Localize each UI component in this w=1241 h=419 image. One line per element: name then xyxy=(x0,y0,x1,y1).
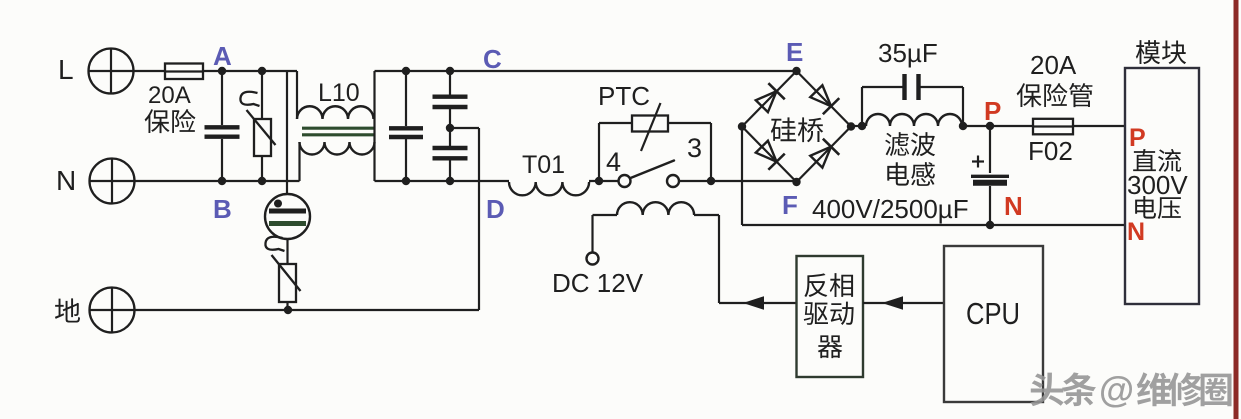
relay coil left lead xyxy=(593,214,618,216)
inverting driver block outline xyxy=(797,256,864,377)
PTC branch top wire left xyxy=(599,122,632,124)
label 滤波 (filter) xyxy=(885,132,935,156)
junction dot C2 top xyxy=(402,67,410,75)
wire inductor to node P xyxy=(963,125,990,127)
svg-text:20A: 20A xyxy=(148,82,191,109)
wire T01 to PTC branch xyxy=(589,180,619,182)
red page edge line xyxy=(1234,0,1239,419)
capacitor C3 lead top xyxy=(449,71,451,95)
relay switch contact 4 xyxy=(619,175,631,187)
Y-cap midpoint junction dot xyxy=(446,124,454,132)
wire node P to fuse F02 xyxy=(990,125,1033,127)
wire choke to capacitor C2 top xyxy=(375,70,407,72)
svg-text:@: @ xyxy=(1099,369,1134,410)
35uF branch top wire left xyxy=(862,86,904,88)
choke L10 bottom winding xyxy=(300,142,375,155)
PTC thermistor body xyxy=(632,116,668,132)
wire fuse F01 to node A xyxy=(203,70,222,72)
fuse F02 body xyxy=(1033,119,1073,135)
wire earth drop vertical xyxy=(478,128,480,310)
capacitor C2 lead bottom xyxy=(405,139,407,181)
svg-text:35µF: 35µF xyxy=(878,38,938,68)
earth row wire xyxy=(135,309,480,311)
svg-text:N: N xyxy=(1004,191,1023,221)
svg-text:A: A xyxy=(213,41,232,71)
wire Y-caps to inductor T01 xyxy=(450,180,509,182)
terminal earth (地) xyxy=(90,288,135,333)
junction dot PTC branch left xyxy=(595,177,603,185)
capacitor C2 plates xyxy=(389,126,423,130)
junction dot C4 bottom xyxy=(446,177,454,185)
capacitor 35uF plates xyxy=(902,74,906,100)
junction dot Y-caps top xyxy=(446,67,454,75)
relay switch blade xyxy=(631,161,675,179)
svg-text:P: P xyxy=(1129,124,1146,152)
terminal L (AC live input) xyxy=(89,49,134,94)
svg-text:P: P xyxy=(984,96,1001,126)
junction dot PTC branch right xyxy=(707,177,715,185)
PTC branch right vertical xyxy=(710,123,712,181)
svg-text:N: N xyxy=(56,165,76,196)
svg-text:4: 4 xyxy=(606,147,621,177)
arrowhead toward driver xyxy=(882,296,903,310)
wire to L10 top winding xyxy=(262,70,297,72)
label 地 (earth) xyxy=(55,298,80,322)
wire node B to RV1 bottom xyxy=(222,180,262,182)
node A junction dot xyxy=(218,67,226,75)
label 直流 (DC) xyxy=(1133,149,1181,172)
bridge diode D3 (left to F) xyxy=(754,139,785,170)
wire fuse F02 to module P input xyxy=(1073,125,1125,127)
junction dot 35uF left xyxy=(858,122,866,130)
wire GDT to varistor RV2 xyxy=(286,239,288,264)
fuse F01 body (20A) xyxy=(165,64,203,80)
inductor T01 winding xyxy=(509,182,589,195)
junction dot C5 bottom xyxy=(986,221,994,229)
label 硅桥 (silicon bridge) xyxy=(771,117,823,142)
relay coil winding xyxy=(617,202,694,215)
bridge edge left-F xyxy=(742,127,797,183)
bridge diode D2 (E to right) xyxy=(808,83,839,114)
bridge diode D1 (left to E) xyxy=(754,83,785,114)
bulk capacitor C5 lead top xyxy=(989,126,991,173)
varistor RV2 body xyxy=(279,264,296,302)
varistor RV1 lead bottom xyxy=(261,156,263,181)
label 反相 (inverse) xyxy=(804,273,853,297)
wire node A to MOV branch xyxy=(222,70,262,72)
junction dot MOV RV1 top xyxy=(258,67,266,75)
svg-text:L10: L10 xyxy=(318,79,360,107)
capacitor C1 lead bottom xyxy=(221,139,223,181)
svg-text:L: L xyxy=(58,54,74,85)
capacitor C1 lead top xyxy=(221,71,223,125)
svg-text:T01: T01 xyxy=(522,151,565,179)
capacitor C3 to midpoint xyxy=(449,109,451,146)
capacitor C4 lead bottom xyxy=(449,161,451,182)
svg-text:PTC: PTC xyxy=(598,81,650,111)
bulk capacitor C5 plates xyxy=(971,175,1009,178)
junction dot 35uF right xyxy=(959,122,967,130)
wire bridge positive to 35uF branch xyxy=(851,125,866,127)
svg-text:F02: F02 xyxy=(1028,136,1073,166)
choke L10 core bar upper xyxy=(302,127,374,130)
wire node C row to bridge E xyxy=(450,70,797,72)
node B junction dot xyxy=(218,177,226,185)
label 模块 (module) xyxy=(1136,40,1186,64)
label 保险 (fuse) xyxy=(145,109,196,133)
relay coil terminal circle xyxy=(587,253,599,265)
svg-text:DC 12V: DC 12V xyxy=(552,268,644,298)
svg-text:E: E xyxy=(786,37,803,67)
svg-text:300V: 300V xyxy=(1127,170,1188,200)
choke L10 top winding xyxy=(297,106,374,119)
label 电感 (inductor) xyxy=(887,162,935,186)
varistor RV1 body xyxy=(254,119,271,156)
svg-text:B: B xyxy=(213,194,232,224)
capacitor C3 plates xyxy=(433,94,468,98)
relay coil right lead xyxy=(694,214,719,216)
relay coil left lead vertical xyxy=(591,215,593,253)
watermark 头条@维修圈 xyxy=(1030,369,1231,410)
svg-text:20A: 20A xyxy=(1030,50,1077,80)
relay switch contact 3 xyxy=(667,175,679,187)
CPU block outline xyxy=(944,246,1043,402)
choke L10 bottom winding left lead xyxy=(298,142,300,181)
DC negative rail wire xyxy=(742,224,1125,226)
relay coil right lead vertical xyxy=(718,215,720,303)
wire L terminal to fuse F01 xyxy=(134,70,166,72)
label 电压 (voltage) xyxy=(1135,196,1181,219)
svg-text:3: 3 xyxy=(687,133,702,163)
wire C2 to C4 bottom row xyxy=(406,180,450,182)
bridge right corner dot xyxy=(847,122,855,130)
bridge node F junction dot xyxy=(792,178,800,186)
bridge edge E-right xyxy=(797,71,852,127)
bulk capacitor plus sign xyxy=(972,160,984,162)
35uF branch right vertical xyxy=(962,87,964,126)
35uF branch top wire right xyxy=(919,86,963,88)
junction dot RV2 on earth row xyxy=(284,306,292,314)
junction dot C2 bottom xyxy=(402,177,410,185)
bridge node E junction dot xyxy=(792,67,800,75)
wire RV1 to L10 bottom winding xyxy=(262,180,300,182)
wire choke to C2 bottom row xyxy=(375,180,407,182)
choke L10 right side lead xyxy=(373,71,375,181)
PTC branch left vertical xyxy=(598,123,600,181)
svg-text:D: D xyxy=(486,194,505,224)
terminal N (AC neutral input) xyxy=(90,159,135,204)
choke L10 top winding left lead xyxy=(296,71,298,119)
label 保险管 (fuse) xyxy=(1017,83,1093,107)
PTC branch top wire right xyxy=(668,122,711,124)
wire bridge negative down xyxy=(741,127,743,226)
svg-text:N: N xyxy=(1127,218,1145,246)
varistor RV1 lead top xyxy=(261,71,263,119)
capacitor C2 lead top xyxy=(405,71,407,126)
varistor RV2 lead to earth row xyxy=(286,302,288,310)
bulk capacitor C5 lead bottom xyxy=(989,186,991,225)
capacitor C1 plates xyxy=(205,125,240,129)
wire C2 to Y-caps top xyxy=(406,70,450,72)
choke L10 core bar lower xyxy=(302,133,374,136)
svg-text:F: F xyxy=(782,190,798,220)
wire Y-cap midpoint to earth drop xyxy=(450,127,479,129)
bridge edge E-left xyxy=(742,71,797,127)
wire CPU to driver xyxy=(863,302,944,304)
svg-text:CPU: CPU xyxy=(966,296,1020,331)
filter inductor winding xyxy=(866,114,962,126)
bridge diode D4 (F to right) xyxy=(808,139,839,170)
svg-text:C: C xyxy=(483,44,502,74)
wire L row down to gas discharge tube xyxy=(286,71,288,194)
label 器 (unit) xyxy=(818,335,842,358)
module block outline xyxy=(1125,68,1199,304)
wire contact 3 to bridge F branch xyxy=(679,180,797,182)
svg-text:400V/2500µF: 400V/2500µF xyxy=(812,194,969,224)
wire N terminal to node B xyxy=(135,180,223,182)
junction dot RV1 bottom xyxy=(258,177,266,185)
node P junction dot xyxy=(986,122,994,130)
gas discharge tube GDT body xyxy=(265,194,310,239)
arrowhead toward relay coil xyxy=(743,296,764,310)
35uF branch left vertical xyxy=(861,87,863,126)
bridge edge F-right xyxy=(797,127,852,183)
capacitor C4 plates xyxy=(433,146,468,150)
bridge left corner dot xyxy=(738,122,746,130)
wire relay drive to driver block xyxy=(719,302,797,304)
label 驱动 (drive) xyxy=(804,302,854,325)
